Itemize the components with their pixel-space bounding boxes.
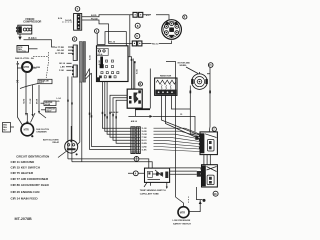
svg-text:GD-A: GD-A bbox=[98, 53, 103, 56]
quadrant control box bbox=[199, 132, 218, 155]
motor MTR (fan helper) bbox=[16, 62, 40, 72]
splice marks on harness verticals bbox=[67, 100, 117, 119]
svg-text:CHAMBER: CHAMBER bbox=[36, 131, 47, 134]
svg-text:CIR 15 KEY SWITCH: CIR 15 KEY SWITCH bbox=[11, 165, 40, 169]
svg-text:A/B-14: A/B-14 bbox=[131, 120, 138, 123]
svg-text:MOTOR AND: MOTOR AND bbox=[178, 62, 191, 65]
label low pressure safety switch bbox=[173, 220, 192, 225]
wire B-GD from compressor bbox=[24, 37, 56, 47]
wire 6-C to bulkhead bbox=[143, 15, 169, 20]
svg-text:SAFETY SWITCH: SAFETY SWITCH bbox=[173, 222, 191, 225]
svg-text:NO-12: NO-12 bbox=[109, 42, 116, 44]
svg-text:CIR 77 AIR CONDITIONER: CIR 77 AIR CONDITIONER bbox=[11, 177, 49, 181]
label FREON COMPRESSOR bbox=[23, 18, 41, 24]
wires blower switch to harness bbox=[110, 95, 132, 143]
svg-text:B-GD: B-GD bbox=[90, 54, 92, 60]
bulkhead round connector bbox=[162, 20, 182, 40]
diagonal wire bbox=[31, 113, 36, 123]
svg-text:14-RD: 14-RD bbox=[142, 145, 148, 148]
svg-text:L-BK: L-BK bbox=[60, 67, 65, 69]
svg-text:B-GD-4: B-GD-4 bbox=[29, 37, 38, 40]
svg-text:8: 8 bbox=[137, 24, 139, 28]
blower switch bbox=[127, 89, 142, 108]
svg-text:RELAY: RELAY bbox=[53, 141, 60, 144]
svg-text:CIRCUIT IDENTIFICATION: CIRCUIT IDENTIFICATION bbox=[16, 155, 49, 159]
svg-text:TEMP SENDING SWITCH: TEMP SENDING SWITCH bbox=[140, 190, 166, 192]
wire heater pair left bbox=[68, 77, 72, 162]
node 18 (circled) bbox=[213, 191, 218, 196]
svg-text:NO-12: NO-12 bbox=[152, 44, 159, 46]
wire horn relay dashed feed bbox=[70, 126, 72, 141]
svg-text:7: 7 bbox=[77, 7, 79, 11]
svg-text:FAN CLUTCH: FAN CLUTCH bbox=[36, 128, 49, 131]
svg-text:80-GY: 80-GY bbox=[142, 140, 148, 142]
motor MTR (engine fan) bbox=[21, 122, 34, 138]
wire labels at connector 3 pins bbox=[55, 46, 72, 55]
svg-text:CIR 80 ACCESSORY FEED: CIR 80 ACCESSORY FEED bbox=[11, 183, 50, 187]
wire loop over control box bbox=[97, 32, 126, 46]
splice node 4 (circled) bbox=[133, 171, 138, 176]
svg-text:FAN CLUTCH - 3A: FAN CLUTCH - 3A bbox=[15, 57, 34, 60]
wire 14-GD dashed bbox=[15, 52, 49, 78]
connector squares top pair bbox=[133, 12, 143, 17]
svg-text:CAPILLARY TUBE: CAPILLARY TUBE bbox=[140, 193, 159, 196]
svg-text:75-RD: 75-RD bbox=[24, 98, 26, 104]
bulkhead connector bars bbox=[79, 42, 85, 83]
wire feed left of motor bbox=[166, 62, 176, 198]
legend circuit identification bbox=[11, 155, 50, 201]
node 16 (circled) bbox=[138, 82, 142, 86]
wire NO-12 right bbox=[142, 41, 172, 46]
svg-text:COMPRESSOR: COMPRESSOR bbox=[23, 20, 41, 23]
wire horn relay to ground bbox=[58, 152, 66, 158]
wire to engine fan motor bbox=[17, 117, 22, 125]
wire left vertical trunk bbox=[16, 61, 18, 117]
wire temp box stub bbox=[144, 182, 168, 189]
connector C7 bbox=[74, 14, 82, 31]
label fan clutch chamber bbox=[36, 128, 53, 142]
wire 14-GD dashed into C7 bbox=[58, 17, 74, 22]
wire from bars to trunk bbox=[86, 69, 90, 77]
connector squares bottom pair bbox=[132, 41, 142, 46]
svg-text:77-OR: 77-OR bbox=[30, 98, 32, 104]
svg-text:4: 4 bbox=[135, 171, 137, 175]
svg-text:B-RD: B-RD bbox=[91, 15, 97, 17]
svg-text:A-TT-RD: A-TT-RD bbox=[55, 46, 64, 49]
svg-text:MTR: MTR bbox=[24, 65, 30, 69]
svg-text:CIR 11 GROUND: CIR 11 GROUND bbox=[11, 160, 36, 164]
compressor A1 bbox=[16, 25, 31, 34]
wire B-RD bbox=[82, 15, 133, 17]
svg-text:RLY: RLY bbox=[3, 130, 7, 132]
node 6 (circled) bbox=[135, 34, 140, 39]
label temp sending bbox=[140, 190, 166, 196]
svg-text:B-GD: B-GD bbox=[136, 68, 138, 74]
harness connector bars bbox=[131, 127, 140, 154]
wires temp box to thermostat bbox=[170, 168, 202, 174]
svg-text:4-B: 4-B bbox=[16, 62, 20, 65]
temp sending switch box bbox=[145, 168, 170, 182]
svg-text:CIR 14 MAIN FEED: CIR 14 MAIN FEED bbox=[11, 197, 39, 201]
splice blob at quadrant box left bbox=[195, 136, 198, 140]
svg-text:B-TT-BK: B-TT-BK bbox=[55, 53, 64, 55]
connector C3 lower bbox=[72, 65, 77, 77]
harness pin labels bbox=[142, 128, 148, 151]
duct arrows (air distribution) bbox=[24, 73, 46, 118]
svg-text:11-GD: 11-GD bbox=[142, 128, 148, 130]
svg-text:80-BK: 80-BK bbox=[37, 98, 39, 104]
wire motor right lead bbox=[207, 67, 211, 132]
node 8 (circled) bbox=[135, 23, 140, 28]
label box engine fan bbox=[3, 123, 15, 133]
resistor R1 bbox=[155, 78, 177, 95]
labels at C3 lower bbox=[59, 62, 72, 72]
wires resistor to quadrant box bbox=[161, 95, 200, 139]
wire control box right verticals bbox=[128, 15, 150, 109]
wire 15 to quadrant switch bbox=[153, 114, 195, 132]
control box contacts bbox=[97, 60, 119, 81]
switch box bottom heavy edge bbox=[135, 108, 150, 110]
node 3 (circled) bbox=[72, 37, 76, 41]
svg-text:15: 15 bbox=[180, 114, 183, 116]
wire feed jog into LP switch bbox=[176, 197, 189, 207]
svg-text:CIR 20 ENGINE FAN: CIR 20 ENGINE FAN bbox=[11, 190, 40, 194]
svg-text:F5-GD: F5-GD bbox=[91, 19, 98, 21]
label motor and wheel bbox=[178, 62, 198, 74]
svg-text:6-C: 6-C bbox=[146, 15, 150, 17]
svg-text:MT-2078B: MT-2078B bbox=[15, 217, 33, 221]
svg-text:11-BK: 11-BK bbox=[142, 149, 148, 151]
splice node (circled plus) bbox=[134, 157, 139, 162]
svg-text:15-RD: 15-RD bbox=[142, 131, 148, 133]
wire trunk v1 bbox=[90, 69, 132, 150]
svg-text:77-BK: 77-BK bbox=[142, 137, 148, 139]
svg-text:B-14: B-14 bbox=[58, 17, 63, 20]
svg-text:6: 6 bbox=[136, 34, 138, 38]
node 17 (circled) bbox=[212, 127, 216, 131]
svg-text:A-14-BK: A-14-BK bbox=[111, 111, 119, 114]
node 7 (circled) bbox=[75, 7, 80, 12]
svg-text:RESISTOR: RESISTOR bbox=[160, 75, 172, 77]
wire from above bbox=[26, 113, 28, 123]
svg-text:CLUTCH: CLUTCH bbox=[18, 51, 26, 53]
low pressure safety switch MTR bbox=[178, 207, 189, 218]
wires from bulkhead bars down bbox=[77, 82, 80, 145]
blower motor M1 bbox=[191, 72, 208, 89]
ground (compressor) bbox=[18, 34, 21, 40]
svg-text:14-GD: 14-GD bbox=[65, 19, 72, 22]
connector C3 upper bbox=[72, 45, 77, 60]
wires quadrant to thermostat bbox=[204, 155, 210, 165]
svg-text:LOW PRESSURE: LOW PRESSURE bbox=[173, 220, 191, 222]
wire F5-GD bbox=[82, 19, 133, 44]
svg-text:MTR: MTR bbox=[180, 211, 186, 214]
svg-text:GD-14: GD-14 bbox=[59, 62, 66, 65]
wires control box bottom to harness bbox=[102, 82, 131, 135]
svg-text:L-14: L-14 bbox=[57, 97, 62, 100]
label box defrost duct bbox=[41, 108, 56, 113]
wire motor left lead bbox=[190, 86, 201, 135]
svg-text:GD-GD: GD-GD bbox=[57, 50, 65, 52]
wire low pressure loop bbox=[189, 187, 205, 212]
svg-text:GD: GD bbox=[57, 101, 61, 103]
thermostat box bbox=[197, 165, 218, 187]
node 5 (circled) bbox=[183, 15, 187, 19]
svg-text:75-OR: 75-OR bbox=[142, 134, 148, 136]
wire heater feeds to temp box bbox=[68, 159, 152, 173]
horn relay bbox=[53, 140, 78, 156]
svg-text:1: 1 bbox=[96, 29, 98, 33]
wire from bars to trunk 2 bbox=[86, 73, 92, 79]
node 15 (circled) bbox=[208, 63, 213, 68]
svg-text:P-GD: P-GD bbox=[59, 70, 65, 72]
svg-text:CIR 75 HEATER: CIR 75 HEATER bbox=[11, 171, 34, 175]
svg-text:3: 3 bbox=[74, 37, 76, 41]
node 1 (circled) bbox=[95, 29, 99, 33]
fan clutch box bbox=[17, 46, 38, 54]
wire trunk v2 bbox=[91, 73, 131, 146]
svg-text:HOSE: HOSE bbox=[45, 104, 51, 106]
evaporator control box bbox=[96, 46, 128, 82]
wires harness to quadrant box bbox=[154, 128, 200, 151]
svg-text:18: 18 bbox=[214, 193, 217, 196]
label box fresh air duct bbox=[20, 79, 52, 88]
label box heater hose bbox=[41, 101, 57, 106]
wire switch feed arrow bbox=[128, 108, 152, 123]
svg-text:20-BN: 20-BN bbox=[142, 143, 148, 145]
svg-text:MTR: MTR bbox=[24, 129, 29, 132]
